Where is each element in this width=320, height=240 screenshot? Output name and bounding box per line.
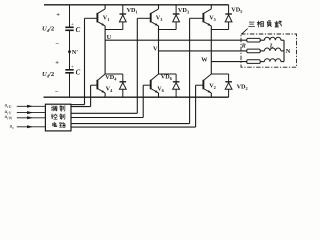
capacitor C (upper) bbox=[65, 26, 73, 28]
wire: load neutral bus bbox=[283, 40, 285, 61]
diode VD5 bbox=[228, 5, 230, 14]
diode VD6 bbox=[175, 74, 177, 82]
svg-text:N′: N′ bbox=[72, 49, 79, 56]
wire: phase vertical (emitter to lower jog) bbox=[104, 26, 106, 74]
inductor L (phase U) bbox=[264, 37, 281, 40]
transistor V1 bbox=[96, 13, 98, 23]
wire: DC positive bus (top rail) bbox=[44, 4, 229, 6]
wire: lower diode jog bbox=[159, 73, 177, 75]
wire: lower diode jog bbox=[105, 73, 123, 75]
transistor V4 bbox=[96, 80, 98, 90]
wire: phase vertical (emitter to lower jog) bbox=[158, 26, 160, 74]
wire: DC negative bus (bottom rail) bbox=[44, 96, 229, 98]
wire: gate drive to V3 bbox=[71, 112, 137, 114]
wire: capacitor branch middle segment bbox=[69, 30, 71, 70]
transistor V2 bbox=[202, 80, 204, 90]
resistor R (phase U) bbox=[247, 38, 260, 42]
svg-text:C: C bbox=[76, 27, 81, 34]
node N' (midpoint) bbox=[68, 50, 71, 53]
svg-text:+: + bbox=[56, 11, 60, 18]
svg-text:+: + bbox=[55, 59, 59, 66]
resistor R (phase V) bbox=[247, 49, 260, 53]
wire: L to neutral (phase V) bbox=[281, 50, 284, 52]
wire: capacitor branch upper segment bbox=[69, 5, 71, 28]
label control box text row 3 (dian lu) bbox=[53, 122, 57, 126]
label three-phase load (san xiang fu zai) bbox=[249, 22, 255, 26]
wire: R to L (phase V) bbox=[260, 50, 264, 52]
wire: L to neutral (phase W) bbox=[281, 61, 284, 63]
svg-text:W: W bbox=[201, 56, 208, 63]
wire: gate drive to V2 bbox=[71, 126, 196, 128]
wire: leg 3 collector stub from + bus bbox=[210, 5, 212, 9]
svg-text:C: C bbox=[76, 70, 81, 77]
input arrow u_rV bbox=[17, 112, 46, 114]
wire: L to neutral (phase U) bbox=[281, 39, 284, 41]
transistor V5 bbox=[202, 13, 204, 23]
svg-text:urW: urW bbox=[5, 114, 13, 121]
diode VD2 bbox=[228, 74, 230, 82]
diode VD1 bbox=[122, 5, 124, 14]
input arrow u_rW bbox=[17, 117, 46, 119]
load box (dashed border) bbox=[241, 34, 297, 67]
diode VD4 bbox=[122, 74, 124, 82]
svg-text:−: − bbox=[55, 41, 59, 48]
label control box text row 2 (kong zhi) bbox=[51, 114, 57, 119]
svg-text:+: + bbox=[71, 22, 74, 28]
svg-text:+: + bbox=[71, 65, 74, 71]
svg-text:−: − bbox=[55, 88, 59, 95]
node V / output line V bbox=[159, 50, 247, 52]
wire: leg 1 emitter to - bus bbox=[104, 93, 106, 97]
svg-text:L: L bbox=[269, 42, 274, 49]
wire: leg 2 emitter to - bus bbox=[158, 93, 160, 97]
leader line to load box bbox=[242, 29, 248, 34]
wire: gate drive to V4 bbox=[71, 106, 91, 108]
wire: upper diode jog to phase line bbox=[159, 29, 177, 31]
diode VD3 bbox=[175, 5, 177, 14]
input arrow u_c bbox=[17, 126, 46, 128]
wire: gate drive to V5 bbox=[71, 123, 190, 125]
svg-text:N: N bbox=[286, 48, 291, 55]
inductor L (phase V) bbox=[264, 48, 281, 51]
wire: R to L (phase W) bbox=[260, 61, 264, 63]
svg-text:Ud/2: Ud/2 bbox=[42, 71, 55, 79]
wire: capacitor branch lower segment bbox=[69, 73, 71, 97]
input arrow u_rU bbox=[17, 105, 46, 107]
wire: leg 3 emitter to - bus bbox=[210, 93, 212, 97]
svg-text:V: V bbox=[153, 46, 158, 53]
wire: phase vertical (emitter to lower jog) bbox=[210, 26, 212, 74]
wire: leg 2 collector stub from + bus bbox=[158, 5, 160, 9]
control box (modulation control circuit) bbox=[45, 104, 71, 131]
transistor V3 bbox=[150, 13, 152, 23]
wire: R to L (phase U) bbox=[260, 39, 264, 41]
wire: upper diode jog to phase line bbox=[105, 29, 123, 31]
inductor L (phase W) bbox=[264, 59, 281, 62]
node U / output line U bbox=[105, 39, 247, 41]
wire: gate drive to V6 bbox=[71, 117, 143, 119]
wire: leg 1 collector stub from + bus bbox=[104, 5, 106, 9]
wire: lower diode jog bbox=[211, 73, 228, 75]
resistor R (phase W) bbox=[247, 60, 260, 64]
svg-text:uc: uc bbox=[10, 124, 15, 131]
svg-text:R: R bbox=[241, 42, 246, 49]
svg-text:U: U bbox=[107, 34, 112, 41]
label control box text row 1 (tiao zhi) bbox=[51, 106, 57, 111]
svg-text:Ud/2: Ud/2 bbox=[42, 26, 55, 34]
wire: upper diode jog to phase line bbox=[211, 29, 228, 31]
wire: gate drive to V1 bbox=[71, 104, 85, 106]
capacitor C (lower) bbox=[65, 69, 73, 71]
transistor V6 bbox=[150, 80, 152, 90]
node W / output line W bbox=[211, 61, 247, 63]
